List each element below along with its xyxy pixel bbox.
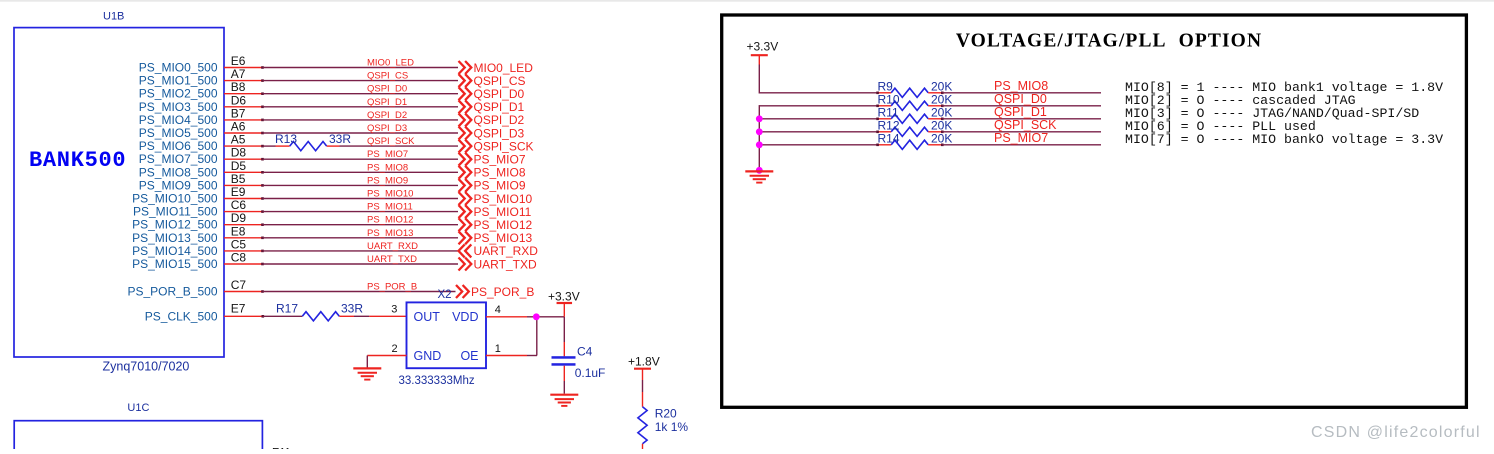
svg-text:UART_RXD: UART_RXD (367, 241, 418, 252)
wire QSPI_SCK pin stub (224, 145, 276, 148)
wire PS_CLK to R17 (224, 315, 302, 318)
svg-text:R12: R12 (878, 118, 900, 132)
power +1.8V (628, 355, 660, 369)
svg-text:PS_MIO7: PS_MIO7 (367, 149, 408, 160)
svg-text:QSPI_CS: QSPI_CS (474, 74, 526, 88)
svg-text:MIO0_LED: MIO0_LED (474, 61, 534, 75)
svg-text:X2: X2 (438, 289, 452, 301)
svg-text:R13: R13 (275, 132, 297, 146)
pin B7 PS_MIO4_500 (139, 106, 246, 127)
svg-text:QSPI_SCK: QSPI_SCK (994, 118, 1057, 132)
watermark CSDN @life2colorful (1311, 424, 1481, 441)
port PS_MIO13 (459, 231, 533, 245)
svg-text:C4: C4 (577, 345, 593, 359)
svg-text:QSPI_D2: QSPI_D2 (474, 113, 525, 127)
svg-text:PS_MIO8: PS_MIO8 (474, 166, 526, 180)
wire X2 pin 1 OE (486, 317, 537, 356)
net label PS_MIO7 (994, 131, 1048, 145)
svg-text:PS_MIO13_500: PS_MIO13_500 (132, 231, 218, 245)
wire PS_MIO7 left segment (759, 144, 877, 146)
svg-text:3: 3 (391, 304, 397, 316)
pin D9 PS_MIO12_500 (132, 211, 246, 232)
port UART_RXD (459, 244, 539, 258)
svg-text:20K: 20K (931, 79, 952, 93)
svg-text:R17: R17 (276, 301, 298, 315)
designator U1C (127, 402, 149, 414)
port QSPI_D3 (459, 126, 525, 140)
pin D5 PS_MIO8_500 (139, 159, 247, 180)
net label PS_POR_B (367, 282, 417, 293)
svg-text:+3.3V: +3.3V (747, 40, 779, 54)
svg-text:GND: GND (414, 349, 442, 363)
svg-text:PS_MIO8: PS_MIO8 (367, 162, 408, 173)
net label PS_MIO9 (367, 175, 408, 186)
svg-text:2: 2 (392, 343, 398, 355)
port PS_MIO12 (459, 218, 533, 232)
svg-text:C8: C8 (231, 251, 247, 265)
svg-text:U1C: U1C (127, 402, 149, 414)
wire QSPI_SCK right segment (942, 131, 1101, 133)
svg-text:CSDN @life2colorful: CSDN @life2colorful (1311, 424, 1481, 441)
resistor R14 20K (876, 131, 952, 149)
wire X2 pin 2 to ground (367, 343, 406, 368)
svg-text:4: 4 (495, 304, 501, 316)
wire QSPI_D0 (224, 92, 458, 95)
power +3.3V in option box (747, 40, 779, 65)
pin name OUT (414, 310, 441, 324)
svg-text:A5: A5 (231, 133, 246, 147)
svg-text:PS_MIO6_500: PS_MIO6_500 (139, 139, 218, 153)
svg-text:QSPI_CS: QSPI_CS (367, 71, 408, 82)
junction dot on pulldown bus row R12 (756, 128, 763, 135)
pin C6 PS_MIO11_500 (133, 198, 246, 219)
net label PS_MIO8 (994, 79, 1048, 93)
wire +1.8V to R20 (642, 369, 644, 407)
pin name GND (414, 349, 442, 363)
svg-text:C5: C5 (231, 237, 247, 251)
designator X2 (438, 289, 452, 301)
net label QSPI_CS (367, 71, 408, 82)
resistor R11 20K (876, 105, 952, 123)
wire below R20 (642, 444, 644, 449)
wire QSPI_SCK left segment (759, 131, 877, 133)
wire PS_MIO7 (224, 158, 458, 161)
wire QSPI_D2 (224, 119, 458, 122)
port QSPI_D1 (459, 100, 525, 114)
ground in option box (745, 171, 773, 182)
label 33.333333Mhz (399, 375, 475, 387)
svg-text:A6: A6 (231, 120, 246, 134)
svg-text:QSPI_D1: QSPI_D1 (994, 105, 1047, 119)
svg-text:PS_MIO9: PS_MIO9 (367, 175, 408, 186)
resistor R17 33R (276, 301, 363, 321)
svg-text:20K: 20K (931, 131, 952, 145)
title VOLTAGE/JTAG/PLL OPTION (956, 31, 1262, 52)
net label QSPI_D0 (994, 92, 1047, 106)
svg-text:PS_MIO7_500: PS_MIO7_500 (139, 152, 218, 166)
pin B5 PS_MIO9_500 (139, 172, 246, 193)
svg-text:D9: D9 (231, 211, 247, 225)
net label QSPI_D3 (367, 123, 407, 134)
svg-text:1k 1%: 1k 1% (655, 420, 689, 434)
svg-text:OE: OE (460, 349, 478, 363)
port UART_TXD (459, 257, 537, 271)
svg-text:QSPI_SCK: QSPI_SCK (474, 139, 534, 153)
svg-text:UART_TXD: UART_TXD (474, 257, 537, 271)
svg-text:+1.8V: +1.8V (628, 355, 660, 369)
net label UART_RXD (367, 241, 418, 252)
wire +3.3V down to C4 (563, 317, 565, 357)
wire PS_MIO7 right segment (942, 144, 1101, 146)
svg-text:OUT: OUT (414, 310, 441, 324)
svg-text:PS_MIO8_500: PS_MIO8_500 (139, 165, 218, 179)
svg-text:R10: R10 (878, 92, 900, 106)
pin name OE (460, 349, 478, 363)
wire QSPI_D0 left segment (759, 105, 877, 107)
pin D8 PS_MIO7_500 (139, 146, 247, 167)
svg-text:B5: B5 (231, 172, 246, 186)
wire PS_MIO8 right segment (942, 92, 1101, 94)
IC U1B BANK500 body (14, 28, 224, 357)
svg-text:VDD: VDD (452, 310, 478, 324)
port MIO0_LED (459, 61, 534, 75)
wire X2 pin 4 VDD to +3.3V (486, 304, 564, 317)
svg-text:PS_MIO11: PS_MIO11 (474, 205, 532, 219)
port PS_POR_B (456, 285, 534, 299)
svg-text:D5: D5 (231, 159, 247, 173)
wire PS_MIO13 (224, 237, 458, 240)
resistor R10 20K (876, 92, 952, 110)
note line MIO option 2 (1125, 93, 1356, 108)
net label UART_TXD (367, 254, 417, 265)
wire PS_MIO8 (224, 171, 458, 174)
option box frame (722, 15, 1467, 407)
net label PS_MIO7 (367, 149, 408, 160)
svg-text:QSPI_D3: QSPI_D3 (367, 123, 407, 134)
top page border strip (0, 0, 1494, 2)
svg-text:U1B: U1B (103, 11, 124, 23)
wire QSPI_D1 (224, 106, 458, 109)
svg-text:33.333333Mhz: 33.333333Mhz (399, 375, 475, 387)
svg-text:PS_MIO12: PS_MIO12 (367, 215, 413, 226)
net label QSPI_D0 (367, 84, 407, 95)
pin E9 PS_MIO10_500 (132, 185, 246, 206)
pin A5 PS_MIO6_500 (139, 133, 246, 154)
svg-text:1: 1 (495, 343, 501, 355)
port QSPI_SCK (459, 139, 534, 153)
svg-text:PS_CLK_500: PS_CLK_500 (145, 309, 218, 323)
resistor R12 20K (876, 118, 952, 136)
pin C7 PS_POR_B_500 (127, 278, 246, 299)
designator U1B (103, 11, 124, 23)
port QSPI_D2 (459, 113, 525, 127)
svg-text:PS_MIO12: PS_MIO12 (474, 218, 533, 232)
svg-text:QSPI_D1: QSPI_D1 (367, 97, 407, 108)
wire MIO0_LED (224, 66, 458, 69)
port PS_MIO11 (459, 205, 532, 219)
svg-text:B8: B8 (231, 80, 246, 94)
resistor R20 1k 1% (638, 407, 688, 444)
svg-text:R9: R9 (878, 79, 894, 93)
wire pulldown bus R10 to ground (758, 105, 760, 171)
wire PS_MIO12 (224, 223, 458, 226)
svg-text:E9: E9 (231, 185, 246, 199)
svg-text:PS_MIO10: PS_MIO10 (474, 192, 533, 206)
svg-text:33R: 33R (341, 301, 363, 315)
svg-text:UART_RXD: UART_RXD (474, 244, 539, 258)
wire QSPI_D0 right segment (942, 105, 1101, 107)
resistor R13 33R (275, 132, 351, 151)
svg-text:PS_MIO7: PS_MIO7 (474, 153, 526, 167)
port QSPI_CS (459, 74, 526, 88)
port PS_MIO10 (459, 192, 533, 206)
net label PS_MIO10 (367, 189, 413, 200)
svg-text:QSPI_D0: QSPI_D0 (367, 84, 407, 95)
IC U1C body (14, 421, 262, 454)
svg-text:PS_POR_B: PS_POR_B (471, 285, 534, 299)
svg-text:BANK500: BANK500 (29, 148, 126, 173)
net label PS_MIO11 (367, 202, 413, 213)
svg-text:PS_MIO4_500: PS_MIO4_500 (139, 113, 218, 127)
pin B8 PS_MIO2_500 (139, 80, 246, 101)
svg-text:PS_MIO12_500: PS_MIO12_500 (132, 218, 218, 232)
wire QSPI_D1 right segment (942, 118, 1101, 120)
wire PS_MIO8 left segment (759, 92, 877, 94)
wire PS_MIO10 (224, 197, 458, 200)
net label PS_MIO12 (367, 215, 413, 226)
svg-text:UART_TXD: UART_TXD (367, 254, 417, 265)
svg-text:D6: D6 (231, 93, 247, 107)
svg-text:PS_MIO0_500: PS_MIO0_500 (139, 61, 218, 75)
net label PS_MIO8 (367, 162, 408, 173)
pin E11 (clipped at page bottom) (272, 447, 291, 454)
wire +3.3V down to R9 (758, 65, 760, 94)
pin name VDD (452, 310, 478, 324)
svg-text:PS_MIO10_500: PS_MIO10_500 (132, 192, 218, 206)
pin A7 PS_MIO1_500 (139, 67, 246, 88)
svg-text:R11: R11 (878, 105, 899, 119)
label Zynq7010/7020 (103, 360, 190, 374)
wire C4 to ground (563, 366, 565, 394)
svg-text:C6: C6 (231, 198, 247, 212)
svg-text:20K: 20K (931, 105, 952, 119)
svg-text:PS_MIO3_500: PS_MIO3_500 (139, 100, 218, 114)
svg-text:R14: R14 (878, 131, 900, 145)
svg-text:+3.3V: +3.3V (548, 290, 580, 304)
note line MIO option 4 (1125, 119, 1316, 134)
svg-text:MIO0_LED: MIO0_LED (367, 58, 414, 69)
svg-text:D8: D8 (231, 146, 247, 160)
svg-text:PS_POR_B: PS_POR_B (367, 282, 417, 293)
pin D6 PS_MIO3_500 (139, 93, 247, 114)
svg-text:PS_MIO2_500: PS_MIO2_500 (139, 87, 218, 101)
svg-text:MIO[7] = O ---- MIO bankO vol: MIO[7] = O ---- MIO bankO voltage = 3.3V (1125, 132, 1443, 147)
junction dot on pulldown bus row R14 (756, 141, 763, 148)
port PS_MIO9 (459, 179, 526, 193)
svg-text:PS_MIO5_500: PS_MIO5_500 (139, 126, 218, 140)
pin E6 PS_MIO0_500 (139, 54, 246, 75)
capacitor C4 0.1uF (552, 345, 606, 381)
net label QSPI_D1 (994, 105, 1047, 119)
svg-text:PS_MIO13: PS_MIO13 (367, 228, 413, 239)
wire QSPI_SCK to port (340, 145, 459, 147)
svg-text:PS_MIO9: PS_MIO9 (474, 179, 526, 193)
power +3.3V at oscillator (548, 290, 580, 317)
note line MIO option 1 (1125, 80, 1443, 95)
net label QSPI_D2 (367, 110, 407, 121)
svg-text:QSPI_D0: QSPI_D0 (474, 87, 525, 101)
svg-text:QSPI_D1: QSPI_D1 (474, 100, 525, 114)
port PS_MIO8 (459, 166, 526, 180)
svg-text:QSPI_D0: QSPI_D0 (994, 92, 1047, 106)
net label PS_MIO13 (367, 228, 413, 239)
wire QSPI_D3 (224, 132, 458, 135)
svg-text:QSPI_D2: QSPI_D2 (367, 110, 407, 121)
junction dot at VDD node (533, 313, 540, 320)
svg-text:PS_MIO7: PS_MIO7 (994, 131, 1048, 145)
svg-text:PS_MIO1_500: PS_MIO1_500 (139, 74, 218, 88)
resistor R9 20K (876, 79, 952, 97)
pin A6 PS_MIO5_500 (139, 120, 246, 141)
svg-text:VOLTAGE/JTAG/PLL OPTION: VOLTAGE/JTAG/PLL OPTION (956, 31, 1262, 52)
pin E7 PS_CLK_500 (145, 301, 246, 323)
svg-text:20K: 20K (931, 118, 952, 132)
wire PS_POR_B (224, 290, 456, 293)
junction dot at ground (756, 167, 763, 174)
label BANK500 (29, 148, 126, 173)
svg-text:C7: C7 (231, 278, 247, 292)
svg-text:E6: E6 (231, 54, 246, 68)
ground at X2 pin 2 (353, 368, 381, 379)
port PS_MIO7 (459, 153, 526, 167)
svg-text:B7: B7 (231, 106, 246, 120)
ground at C4 (550, 395, 578, 406)
oscillator X2 body (407, 302, 487, 368)
svg-text:20K: 20K (931, 92, 952, 106)
junction dot on pulldown bus row R11 (756, 115, 763, 122)
wire UART_RXD (224, 250, 458, 253)
net label MIO0_LED (367, 58, 414, 69)
svg-text:E7: E7 (231, 301, 246, 315)
pin C5 PS_MIO14_500 (132, 237, 246, 258)
wire QSPI_CS (224, 79, 458, 82)
port QSPI_D0 (459, 87, 525, 101)
pin E8 PS_MIO13_500 (132, 224, 246, 245)
svg-text:PS_MIO11_500: PS_MIO11_500 (133, 205, 218, 219)
net label QSPI_D1 (367, 97, 407, 108)
svg-text:QSPI_SCK: QSPI_SCK (367, 136, 415, 147)
pin C8 PS_MIO15_500 (132, 251, 246, 272)
net label QSPI_SCK (994, 118, 1057, 132)
note line MIO option 3 (1125, 106, 1419, 121)
svg-text:PS_MIO15_500: PS_MIO15_500 (132, 257, 218, 271)
svg-text:R20: R20 (655, 407, 677, 421)
wire PS_MIO11 (224, 210, 458, 213)
svg-text:PS_MIO14_500: PS_MIO14_500 (132, 244, 218, 258)
svg-text:PS_POR_B_500: PS_POR_B_500 (127, 285, 217, 299)
svg-text:PS_MIO8: PS_MIO8 (994, 79, 1048, 93)
svg-text:PS_MIO13: PS_MIO13 (474, 231, 533, 245)
net label QSPI_SCK (367, 136, 415, 147)
svg-text:QSPI_D3: QSPI_D3 (474, 126, 525, 140)
svg-text:PS_MIO9_500: PS_MIO9_500 (139, 178, 218, 192)
note line MIO option 5 (1125, 132, 1443, 147)
wire UART_TXD (224, 263, 458, 266)
svg-text:PS_MIO10: PS_MIO10 (367, 189, 413, 200)
wire PS_MIO9 (224, 184, 458, 187)
svg-text:33R: 33R (329, 132, 351, 146)
wire QSPI_D1 left segment (759, 118, 877, 120)
svg-text:A7: A7 (231, 67, 246, 81)
svg-text:PS_MIO11: PS_MIO11 (367, 202, 413, 213)
svg-text:Zynq7010/7020: Zynq7010/7020 (103, 360, 190, 374)
svg-text:E8: E8 (231, 224, 246, 238)
svg-text:0.1uF: 0.1uF (575, 366, 606, 380)
wire R17 to X2 pin 3 (339, 304, 406, 317)
